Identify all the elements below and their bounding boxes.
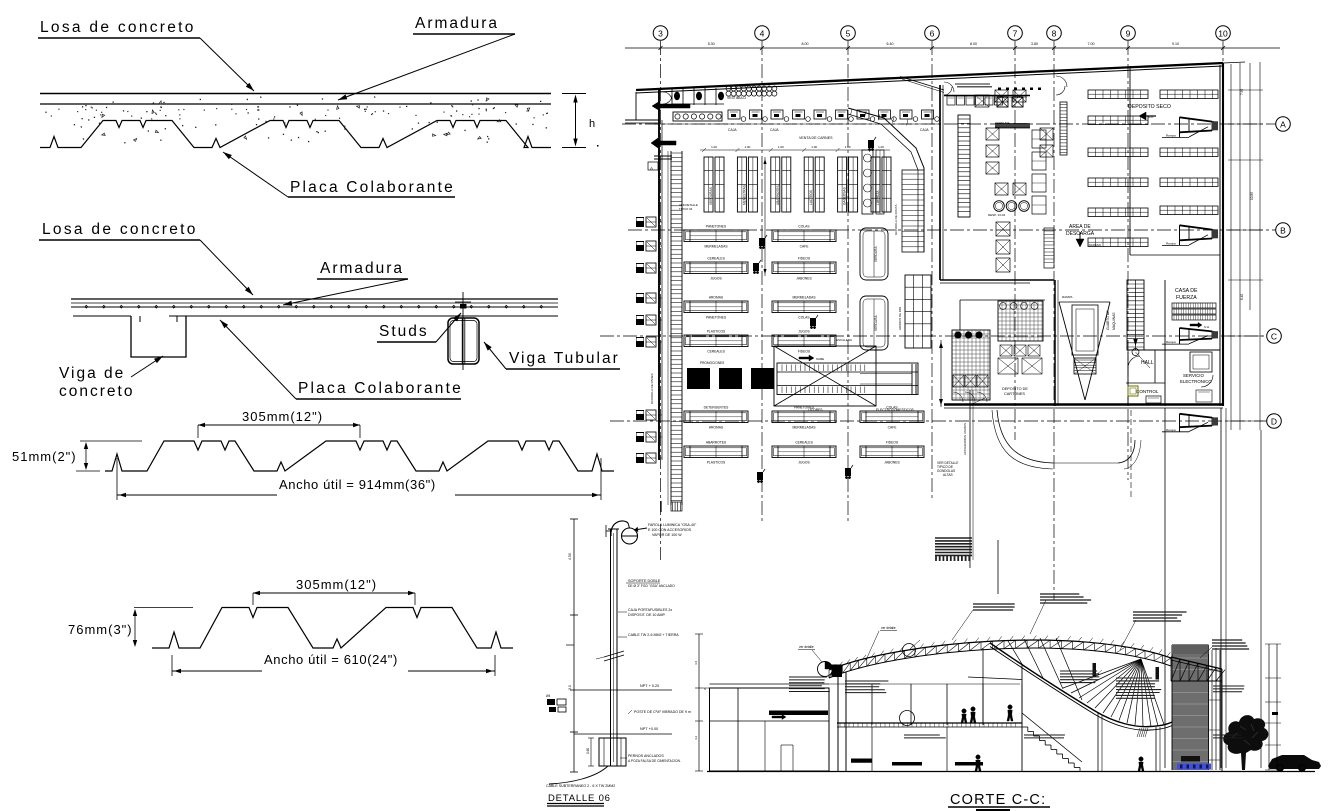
svg-text:CEREALES: CEREALES	[707, 350, 725, 354]
svg-text:Placa Colaborante: Placa Colaborante	[290, 179, 455, 196]
svg-text:GASEOSAS: GASEOSAS	[843, 187, 847, 205]
svg-text:5.30: 5.30	[708, 42, 715, 46]
svg-text:JUGOS: JUGOS	[798, 461, 810, 465]
svg-text:Viga Tubular: Viga Tubular	[509, 350, 620, 367]
svg-text:Rampa: Rampa	[1166, 133, 1176, 137]
svg-text:Armadura: Armadura	[415, 15, 499, 32]
svg-text:FUERZA: FUERZA	[1176, 295, 1197, 301]
svg-text:S.H.: S.H.	[1148, 115, 1154, 119]
svg-text:PROMOCIONES: PROMOCIONES	[700, 361, 724, 365]
svg-text:HORNOS DE PAN: HORNOS DE PAN	[898, 307, 902, 330]
svg-text:MERMELADAS: MERMELADAS	[792, 296, 816, 300]
svg-text:COLAS: COLAS	[798, 316, 810, 320]
svg-text:FAROLA LUMINICA "GSA-40": FAROLA LUMINICA "GSA-40"	[648, 523, 697, 527]
svg-text:DESP. 13-04: DESP. 13-04	[988, 213, 1005, 217]
svg-text:HALL: HALL	[1141, 360, 1154, 366]
svg-text:Losa de concreto: Losa de concreto	[42, 221, 198, 238]
svg-text:1.00: 1.00	[845, 145, 851, 149]
svg-text:VESTIBULO: VESTIBULO	[727, 96, 746, 100]
svg-text:Ø4: Ø4	[546, 694, 550, 698]
svg-text:VENTA DE CARNES: VENTA DE CARNES	[799, 136, 833, 140]
svg-text:CAJA PORTAFUSIBLES 2x: CAJA PORTAFUSIBLES 2x	[628, 608, 672, 612]
svg-text:POSTE DE CºAº VIBRADO DE: POSTE DE CºAº VIBRADO DE 9 m	[634, 710, 691, 714]
svg-text:TIPICO 04: TIPICO 04	[679, 207, 693, 211]
svg-text:ELECTRONICO: ELECTRONICO	[1180, 379, 1212, 384]
svg-text:S.H.: S.H.	[1204, 325, 1210, 329]
svg-text:8.00: 8.00	[802, 42, 809, 46]
svg-text:Ancho útil = 610(24"): Ancho útil = 610(24")	[264, 652, 398, 667]
svg-text:MAQUINAS: MAQUINAS	[1112, 312, 1116, 330]
svg-text:FIDEOS: FIDEOS	[798, 257, 811, 261]
svg-text:CAJA: CAJA	[770, 128, 779, 132]
svg-text:CAJA: CAJA	[728, 128, 737, 132]
svg-text:Armadura: Armadura	[320, 260, 404, 277]
svg-text:ELECTRODOMESTICOS: ELECTRODOMESTICOS	[876, 408, 915, 412]
svg-text:ABARROTES: ABARROTES	[706, 441, 727, 445]
svg-text:6: 6	[930, 29, 935, 39]
svg-text:GONDOLA DE PANES: GONDOLA DE PANES	[650, 373, 654, 404]
svg-text:A POZA FALSA DE CIMENTACION.: A POZA FALSA DE CIMENTACION.	[628, 759, 681, 763]
svg-text:PLASTICOS: PLASTICOS	[707, 461, 726, 465]
svg-text:Losa de concreto: Losa de concreto	[40, 19, 196, 36]
svg-text:DE Ø 3" FGD "GSA" ANCLADO: DE Ø 3" FGD "GSA" ANCLADO	[628, 584, 675, 588]
svg-text:305mm(12"): 305mm(12")	[296, 577, 377, 592]
svg-text:6.40: 6.40	[1240, 294, 1244, 300]
svg-text:AROMAS: AROMAS	[709, 426, 724, 430]
svg-text:JUGOS: JUGOS	[710, 277, 722, 281]
svg-text:A: A	[1280, 120, 1286, 130]
svg-text:Rampa: Rampa	[1166, 428, 1176, 432]
svg-text:CABLE TW 2-6 MM2 + TIERRA: CABLE TW 2-6 MM2 + TIERRA	[628, 633, 679, 637]
svg-text:CABLE SUBTERRANEO 2 - 6 X TW 2: CABLE SUBTERRANEO 2 - 6 X TW 2MM2	[546, 784, 615, 788]
svg-text:B: B	[1280, 226, 1286, 236]
svg-text:AROMAS: AROMAS	[709, 296, 724, 300]
svg-text:1.00: 1.00	[778, 145, 784, 149]
svg-text:N: N	[704, 687, 706, 691]
svg-text:ACCESORIOS VARIOS: ACCESORIOS VARIOS	[963, 423, 967, 455]
svg-text:DETALLE 06: DETALLE 06	[548, 793, 611, 804]
svg-text:ver detalle: ver detalle	[799, 645, 814, 649]
svg-text:ABARROTES: ABARROTES	[776, 185, 780, 205]
svg-text:Ancho útil = 914mm(36"): Ancho útil = 914mm(36")	[279, 477, 436, 492]
svg-text:10.85: 10.85	[1250, 192, 1254, 200]
svg-text:E 100 CON ACCESORIOS: E 100 CON ACCESORIOS	[648, 528, 692, 532]
svg-text:1.00: 1.00	[744, 145, 750, 149]
svg-text:LICORES: LICORES	[808, 408, 823, 412]
svg-text:Rampa: Rampa	[1166, 340, 1176, 344]
svg-text:DETERGENTES: DETERGENTES	[704, 406, 730, 410]
svg-text:4.50: 4.50	[568, 553, 572, 560]
svg-text:SOPORTE DOBLE: SOPORTE DOBLE	[628, 579, 661, 583]
svg-text:LACTEOS: LACTEOS	[809, 190, 813, 205]
svg-text:NPT +0.00: NPT +0.00	[640, 727, 658, 731]
svg-text:VAPOR DE 100 W: VAPOR DE 100 W	[652, 533, 682, 537]
svg-text:DEPOSITO SECO: DEPOSITO SECO	[1128, 104, 1171, 110]
svg-text:h: h	[589, 118, 595, 130]
svg-text:JABONES: JABONES	[884, 461, 900, 465]
svg-text:ESCALERA: ESCALERA	[836, 338, 852, 342]
svg-text:DEPOSITO DE: DEPOSITO DE	[1002, 387, 1028, 391]
svg-text:MERMELADAS: MERMELADAS	[704, 245, 728, 249]
svg-text:NPT + 0.20: NPT + 0.20	[640, 684, 659, 688]
svg-text:8: 8	[1052, 29, 1057, 39]
svg-text:JUGOS: JUGOS	[798, 330, 810, 334]
svg-text:concreto: concreto	[59, 383, 134, 400]
svg-text:4: 4	[760, 29, 765, 39]
svg-text:4.2: 4.2	[694, 735, 698, 740]
svg-text:PERNOS ANCLADOS: PERNOS ANCLADOS	[628, 754, 664, 758]
svg-text:GUARTO DE: GUARTO DE	[1106, 310, 1110, 330]
svg-text:VERDURAS: VERDURAS	[709, 187, 713, 205]
svg-text:ALTAS: ALTAS	[943, 473, 953, 477]
svg-text:CEREALES: CEREALES	[795, 441, 813, 445]
svg-text:LIMPIEZA: LIMPIEZA	[876, 190, 880, 205]
svg-text:9: 9	[1126, 29, 1131, 39]
svg-text:CASA DE: CASA DE	[1175, 288, 1198, 294]
svg-text:PLASTICOS: PLASTICOS	[707, 330, 726, 334]
svg-text:76mm(3"): 76mm(3")	[68, 622, 133, 637]
svg-text:1.00: 1.00	[878, 145, 884, 149]
svg-text:JABONES: JABONES	[796, 277, 812, 281]
svg-text:9.10: 9.10	[1172, 42, 1179, 46]
svg-text:RAMPA: RAMPA	[1062, 295, 1072, 299]
svg-text:7.95: 7.95	[1240, 89, 1244, 95]
svg-text:0.60: 0.60	[586, 748, 590, 754]
svg-text:SERVICIO: SERVICIO	[1183, 373, 1204, 378]
svg-text:CONTROL: CONTROL	[1136, 389, 1159, 394]
svg-text:DISPOSIT. DE 10 AMP.: DISPOSIT. DE 10 AMP.	[628, 613, 666, 617]
svg-text:3.80: 3.80	[1031, 42, 1038, 46]
svg-text:FIDEOS: FIDEOS	[798, 350, 811, 354]
svg-text:D: D	[1271, 417, 1277, 427]
svg-text:AREA DE: AREA DE	[1069, 224, 1091, 230]
svg-text:7.00: 7.00	[1088, 42, 1095, 46]
svg-text:VERDURA: VERDURA	[874, 246, 878, 262]
svg-text:PANETONES: PANETONES	[706, 225, 727, 229]
svg-text:CAJA: CAJA	[920, 128, 929, 132]
svg-text:PANETONES: PANETONES	[706, 316, 727, 320]
svg-text:305mm(12"): 305mm(12")	[242, 409, 323, 424]
svg-text:Viga de: Viga de	[59, 365, 125, 382]
svg-text:4.6: 4.6	[694, 660, 698, 665]
svg-text:MENESTRAS: MENESTRAS	[742, 185, 746, 205]
svg-text:51mm(2"): 51mm(2")	[12, 449, 77, 464]
svg-text:3.0: 3.0	[568, 685, 572, 690]
svg-text:6.40: 6.40	[887, 42, 894, 46]
svg-text:ver detalle: ver detalle	[881, 626, 896, 630]
svg-text:10: 10	[1218, 29, 1228, 39]
svg-text:5: 5	[846, 29, 851, 39]
svg-text:VERDURA: VERDURA	[874, 315, 878, 331]
svg-text:COLAS: COLAS	[798, 225, 810, 229]
svg-text:MERMELADAS: MERMELADAS	[792, 426, 816, 430]
svg-text:1.00: 1.00	[711, 145, 717, 149]
svg-text:CARTONES: CARTONES	[1004, 392, 1025, 396]
svg-text:Studs: Studs	[379, 323, 429, 340]
svg-text:7: 7	[1013, 29, 1018, 39]
svg-text:GONDOLA DE FRUTA: GONDOLA DE FRUTA	[894, 205, 898, 235]
svg-text:Rampa: Rampa	[1166, 241, 1176, 245]
svg-text:8.00: 8.00	[970, 42, 977, 46]
svg-text:Placa Colaborante: Placa Colaborante	[298, 380, 463, 397]
svg-text:C: C	[1271, 332, 1277, 342]
svg-text:3: 3	[658, 29, 663, 39]
svg-text:CAFE: CAFE	[800, 245, 810, 249]
svg-text:1.00: 1.00	[811, 145, 817, 149]
svg-text:SUBE: SUBE	[816, 357, 824, 361]
svg-text:CEREALES: CEREALES	[707, 257, 725, 261]
svg-text:CORTE C-C:: CORTE C-C:	[950, 792, 1046, 808]
svg-text:CAFE: CAFE	[888, 426, 898, 430]
svg-text:FIDEOS: FIDEOS	[886, 441, 899, 445]
